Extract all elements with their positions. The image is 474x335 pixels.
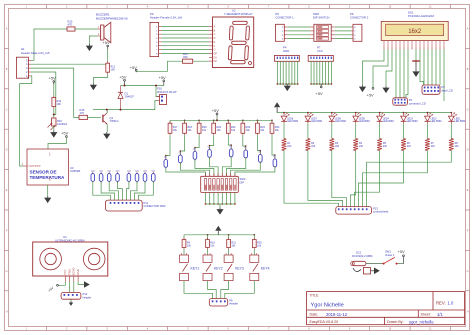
svg-text:P11: P11 (144, 201, 149, 205)
wire SW2 to conector2 (335, 26, 351, 28)
switch KEY2 (203, 253, 223, 281)
svg-text:7: 7 (354, 31, 356, 33)
wire Q3 to SW3 pin 2 (180, 163, 209, 177)
svg-text:PC1602A-GHW-ESX: PC1602A-GHW-ESX (408, 14, 434, 18)
wire +5V to R12 (107, 49, 109, 63)
node vcc bus (316, 83, 318, 85)
svg-text:G: G (214, 49, 216, 52)
wire bus to R19 (198, 120, 200, 123)
node LED8 anode (283, 112, 285, 114)
svg-text:Drawn By:: Drawn By: (387, 320, 404, 324)
svg-text:5: 5 (187, 6, 189, 9)
svg-text:220: 220 (359, 145, 364, 148)
wire LED7 to R2 (307, 124, 309, 139)
wire header pin1 to sensor output (20, 76, 32, 166)
wire Q6 to SW3 pin 5 (222, 157, 231, 177)
wire +5V bus SW3 row (170, 119, 272, 121)
wire ultrasonic ECHO (73, 282, 75, 293)
transistor Q16 (143, 170, 148, 183)
svg-text:Q3: Q3 (178, 152, 182, 154)
wire P4 pin to ground bus (288, 61, 290, 84)
wire ultrasonic GND (78, 282, 84, 285)
svg-text:ygor_nichelle: ygor_nichelle (409, 319, 434, 324)
LED LED5 (353, 113, 370, 124)
wire Q15 to conector SW3 (130, 181, 137, 200)
svg-text:11: 11 (429, 6, 432, 9)
+5V above R14 (49, 76, 57, 85)
wire SW3 ground bus (206, 203, 235, 205)
svg-text:KEY3: KEY3 (235, 267, 244, 271)
wire rail to P10 pin1 (156, 86, 160, 97)
svg-text:B: B (467, 68, 469, 71)
ground LCD VSS (359, 85, 366, 92)
resistor R20 (212, 121, 222, 135)
node Q6 top (230, 144, 232, 146)
svg-text:D2: D2 (214, 60, 218, 63)
svg-text:P2: P2 (442, 85, 446, 89)
node Q3 top (180, 150, 182, 152)
resistor R22 (241, 121, 251, 135)
node Q7 top (245, 145, 247, 147)
svg-text:U4: U4 (63, 235, 67, 239)
svg-text:220: 220 (455, 145, 460, 148)
ground at buzzer (86, 44, 93, 51)
svg-text:G: G (467, 270, 469, 273)
svg-text:conectorleds: conectorleds (373, 210, 389, 214)
wire ground bus (277, 83, 297, 85)
wire R19 to Q4 (195, 135, 199, 151)
svg-text:5: 5 (26, 58, 28, 62)
ultrasonic sensor U4 ULTRASONIC-HC-SR04 (33, 235, 108, 282)
wire R1 to conector leds pin1 (284, 151, 339, 207)
svg-text:F: F (6, 230, 8, 233)
node R20 top (213, 119, 215, 121)
wire LCD E to P3 (403, 50, 405, 98)
svg-text:GND: GND (283, 49, 289, 53)
svg-text:5: 5 (354, 39, 356, 41)
wire R12 bottom to ground (93, 74, 107, 83)
svg-text:VCC: VCC (63, 269, 67, 275)
resistor R16 (79, 108, 88, 120)
transistor Q4 (193, 148, 197, 161)
wire conector1 to SW2 (287, 30, 310, 32)
svg-text:10k: 10k (187, 129, 192, 132)
svg-text:WJ103-5.00-2P: WJ103-5.00-2P (157, 90, 177, 94)
wire conector1 to SW2 (287, 26, 310, 28)
svg-text:Q17: Q17 (151, 170, 156, 172)
svg-text:10k: 10k (257, 244, 262, 247)
wire KEY4 to P8 (225, 281, 255, 299)
svg-text:470: 470 (80, 111, 85, 115)
wire LCD VO to ground (386, 50, 392, 87)
transistor Q15 (135, 170, 140, 183)
switch KEY1 (180, 253, 200, 281)
svg-text:1N4007: 1N4007 (125, 95, 135, 99)
wire ultrasonic TRIG (69, 282, 71, 293)
transistor Q10 (91, 170, 96, 183)
svg-text:DC1: DC1 (356, 250, 362, 254)
svg-text:DIP: DIP (240, 180, 245, 184)
svg-text:7: 7 (156, 50, 158, 52)
svg-text:SENSOR DE: SENSOR DE (30, 170, 57, 175)
node gnd bus (285, 83, 287, 85)
svg-text:data LCD: data LCD (442, 89, 453, 93)
transistor Q17 (151, 170, 156, 183)
LCD display DS1 PC1602A-GHW-ESX (381, 11, 448, 50)
wire R21 to Q6 (228, 135, 231, 149)
resistor R10 (206, 238, 216, 250)
svg-text:E: E (6, 189, 8, 192)
resistor R8 (449, 139, 459, 151)
wire P7 pin to +5V bus (322, 61, 324, 84)
resistor R24 (270, 121, 280, 135)
ground below Q1 (103, 132, 110, 139)
wire Q14 to conector SW3 (126, 181, 128, 200)
node D1 anode (120, 109, 122, 111)
wire Q9 to SW3 pin 8 (235, 167, 275, 177)
node gnd bus (279, 83, 281, 85)
wire R2 to conector leds pin2 (308, 151, 343, 207)
svg-text:16x2: 16x2 (408, 29, 422, 35)
+5V at SW1 (398, 249, 406, 264)
svg-text:C: C (467, 108, 469, 111)
svg-text:+5V: +5V (367, 93, 375, 98)
node SW3 gnd bus (230, 203, 232, 205)
+5V below P7 (316, 84, 324, 96)
svg-text:6: 6 (228, 328, 230, 331)
node Q4 top (194, 147, 196, 149)
wire keys bus (184, 234, 254, 236)
wire P7 pin to +5V bus (330, 61, 332, 84)
svg-text:DCJ0202-2.0MM: DCJ0202-2.0MM (352, 254, 373, 258)
transistor Q1 TIP31C (103, 113, 119, 124)
svg-text:3: 3 (282, 35, 284, 37)
svg-text:SW1: SW1 (385, 250, 391, 254)
wire R20 to Q5 (210, 135, 214, 149)
ground below R12 (90, 83, 97, 90)
svg-text:10k: 10k (231, 244, 236, 247)
svg-text:comando LCD: comando LCD (409, 102, 426, 106)
svg-text:4: 4 (147, 328, 149, 331)
svg-text:+5V: +5V (119, 74, 127, 79)
DC jack DC1 DCJ0202-2.0MM (351, 250, 373, 274)
svg-text:7: 7 (268, 328, 270, 331)
svg-text:Q16: Q16 (143, 170, 148, 172)
node R19 top (198, 119, 200, 121)
svg-text:9: 9 (349, 328, 351, 331)
svg-text:2018-11-12: 2018-11-12 (326, 312, 348, 317)
svg-text:LED-5MM: LED-5MM (431, 120, 442, 123)
resistor R3 (329, 139, 339, 151)
node vcc bus (331, 83, 333, 85)
svg-text:10K: 10K (111, 69, 116, 72)
wire Q16 to conector SW3 (134, 181, 145, 200)
wire R15 to ground (53, 126, 55, 131)
node Q9 top (274, 154, 276, 156)
svg-text:Q6: Q6 (229, 146, 233, 148)
svg-text:Q2: Q2 (164, 156, 168, 158)
svg-text:ULTRASONIC-HC-SR04: ULTRASONIC-HC-SR04 (55, 238, 85, 242)
svg-text:LED-5MM: LED-5MM (455, 120, 466, 123)
svg-text:10k: 10k (231, 129, 236, 132)
node gnd bus (282, 83, 284, 85)
svg-text:220: 220 (407, 145, 412, 148)
svg-text:3: 3 (106, 6, 108, 9)
transistor Q14 (127, 170, 132, 183)
wire P4 pin to ground bus (294, 61, 296, 84)
header H1 Header-Male-2.54_1x5 (16, 47, 50, 78)
node SW3 gnd bus (217, 203, 219, 205)
wire bus to R18 (184, 120, 186, 123)
node LED7 anode (307, 112, 309, 114)
+5V above SW3 row (212, 108, 220, 117)
header P8 (209, 298, 238, 306)
wire SW2 to conector2 (335, 30, 351, 32)
wire R17 to Q2 (166, 135, 170, 159)
wire R13 to buzzer pin 1 (75, 28, 97, 30)
ground below R15 (50, 131, 57, 138)
svg-text:D1: D1 (214, 56, 218, 59)
svg-text:220: 220 (431, 145, 436, 148)
connector P2 data LCD (422, 85, 453, 94)
wire P4 pin to ground bus (297, 61, 299, 84)
LED LED4 (377, 113, 394, 124)
node SW3 gnd bus (209, 203, 211, 205)
ground below ultrasonic header (69, 302, 73, 306)
diode D1 1N4007 (118, 86, 135, 110)
svg-text:4: 4 (282, 39, 284, 41)
ground at DC jack (371, 268, 380, 275)
svg-text:LED-5MM: LED-5MM (359, 120, 370, 123)
node LED6 anode (331, 112, 333, 114)
svg-text:A103GZ: A103GZ (57, 122, 67, 126)
wire bus to R21 (227, 120, 229, 123)
wire header pin4 to R12 node (31, 63, 106, 65)
wire Q17 to conector SW3 (138, 181, 153, 200)
ground at ultrasonic (84, 281, 90, 288)
svg-text:Header-Male-2.54_1x5: Header-Male-2.54_1x5 (21, 51, 50, 55)
svg-text:220: 220 (383, 145, 388, 148)
transistor Q2 (164, 156, 168, 169)
svg-text:G: G (6, 270, 8, 273)
+5V at display resistor (130, 65, 138, 72)
switch KEY3 (224, 253, 244, 281)
wire R23 to Q8 (257, 135, 260, 154)
buzzer BUZZER1 (96, 13, 128, 43)
svg-text:ECHO: ECHO (72, 268, 76, 276)
wire P9 pin2 to display (162, 29, 209, 31)
wire P7 pin to +5V bus (316, 61, 318, 84)
wire LED5 to R4 (355, 124, 357, 139)
header P11 CONECTOR SW3 (106, 200, 166, 211)
+5V below LCD (367, 88, 375, 98)
wire LCD D0 to P3 (406, 50, 408, 98)
photoresistor R15 (48, 118, 68, 130)
node keys bus (253, 234, 255, 236)
resistor R11 (183, 52, 193, 63)
svg-text:220: 220 (287, 145, 292, 148)
wire bus to R22 (242, 120, 244, 123)
svg-text:Date:: Date: (310, 313, 319, 317)
svg-text:Ygor Nichelle: Ygor Nichelle (311, 303, 344, 309)
svg-text:10: 10 (389, 6, 392, 9)
LED LED7 (305, 113, 322, 124)
node Q8 top (260, 150, 262, 152)
resistor R5 (377, 139, 387, 151)
connector P6 CONECTOR 2 (350, 12, 369, 42)
wire Q5 to SW3 pin 4 (210, 157, 219, 176)
svg-text:2: 2 (26, 70, 28, 74)
svg-text:Q4: Q4 (193, 148, 197, 150)
svg-text:E: E (467, 189, 469, 192)
wire R25 to KEY4 (253, 250, 255, 256)
transistor Q6 (229, 146, 233, 159)
svg-text:D: D (6, 149, 8, 152)
header P7 VCC (308, 46, 333, 62)
wire LED anode bus (277, 112, 451, 114)
svg-text:REV:: REV: (436, 300, 446, 305)
ground below P4 (284, 84, 291, 91)
LED LED8 (281, 113, 298, 124)
node keys bus (207, 234, 209, 236)
svg-text:Header: Header (229, 302, 238, 306)
wire P7 pin to +5V bus (325, 61, 327, 84)
svg-text:1: 1 (26, 6, 28, 9)
svg-text:10k: 10k (217, 129, 222, 132)
power flag LED row (274, 102, 280, 112)
wire LED4 to R5 (379, 124, 381, 139)
wire bus to R11 (228, 235, 230, 240)
svg-text:TEMPERATURA: TEMPERATURA (30, 175, 66, 180)
resistor R11 (227, 238, 237, 250)
switch SW1 chave 1 (383, 250, 398, 265)
svg-text:P13: P13 (373, 206, 378, 210)
wire LED1 to R8 (450, 124, 452, 139)
svg-text:+5V: +5V (49, 76, 57, 81)
wire LED3 to R6 (403, 124, 405, 139)
wire +5V to sensor Vs (48, 137, 66, 149)
svg-text:LED-5MM: LED-5MM (287, 120, 298, 123)
node gnd bus (277, 83, 279, 85)
svg-text:220: 220 (335, 145, 340, 148)
svg-text:Q9: Q9 (273, 156, 277, 158)
wire Q2 to SW3 pin 1 (166, 167, 206, 176)
svg-text:+5V: +5V (159, 75, 167, 80)
svg-text:+5V: +5V (398, 249, 406, 254)
node SW3 gnd bus (213, 203, 215, 205)
node Q2 top (165, 155, 167, 157)
svg-text:Header: Header (83, 296, 92, 300)
connector P10 WJ103-5.00-2P (157, 87, 177, 105)
header P9 Header-Female-2.54_1x8 (150, 12, 182, 57)
wire P4 pin to ground bus (276, 61, 278, 84)
resistor R13 (67, 20, 75, 32)
node +5V bus (216, 119, 218, 121)
svg-text:470: 470 (68, 23, 73, 27)
node header pin1 (28, 77, 30, 79)
svg-text:2: 2 (66, 6, 68, 9)
node SW3 gnd bus (234, 203, 236, 205)
svg-text:+5V: +5V (61, 131, 69, 136)
wire +5V to R14 (53, 85, 55, 98)
wire P4 pin to ground bus (291, 61, 293, 84)
wire Q11 to conector SW3 (101, 181, 114, 200)
svg-text:7-SEGMENT-DISPLAY: 7-SEGMENT-DISPLAY (224, 12, 253, 16)
node LED1 anode (450, 112, 452, 114)
wire ultrasonic VCC (58, 282, 65, 286)
+5V above R12 (102, 40, 110, 49)
svg-text:+5V: +5V (47, 285, 55, 292)
wire KEY2 to P8 (208, 281, 217, 299)
wire SW1 to +5V (398, 263, 404, 265)
svg-text:10k: 10k (187, 244, 192, 247)
wire Q8 to SW3 pin 7 (231, 162, 261, 176)
svg-text:Q10: Q10 (91, 170, 96, 172)
transistor Q9 (273, 156, 277, 169)
wire bus to R24 (271, 120, 273, 123)
transistor Q8 (258, 151, 262, 164)
node SW3 gnd bus (226, 203, 228, 205)
resistor R7 (425, 139, 435, 151)
+5V at P10 (159, 75, 167, 86)
wire P7 pin to +5V bus (319, 61, 321, 84)
+5V at ultrasonic (47, 284, 58, 292)
node Q5 top (209, 145, 211, 147)
node gnd bus (297, 83, 299, 85)
svg-text:+5V: +5V (102, 40, 110, 45)
node vcc bus (325, 83, 327, 85)
wire R10 to KEY2 (207, 250, 209, 256)
svg-text:220: 220 (311, 145, 316, 148)
svg-text:CONECTOR SW3: CONECTOR SW3 (144, 204, 166, 208)
LED LED6 (329, 113, 346, 124)
node R22 top (242, 119, 244, 121)
node LED2 anode (427, 112, 429, 114)
wire LCD K pin (443, 50, 445, 102)
wire LCD VSS to ground (363, 50, 385, 86)
svg-text:LED-5MM: LED-5MM (383, 120, 394, 123)
svg-text:D: D (214, 37, 216, 40)
wire P9 pin7 to display (162, 49, 209, 51)
wire KEY3 to P8 (221, 281, 229, 299)
svg-text:TITLE:: TITLE: (310, 294, 320, 298)
node LED3 anode (403, 112, 405, 114)
wire SW3 bus to ground (219, 204, 221, 208)
svg-text:E: E (214, 41, 216, 44)
svg-text:3: 3 (26, 66, 28, 70)
node SW3 gnd bus (205, 203, 207, 205)
resistor R9 (182, 238, 191, 250)
svg-text:Q15: Q15 (135, 170, 140, 172)
7-segment display U2 (209, 8, 254, 67)
svg-text:DIP SWITCH: DIP SWITCH (313, 15, 329, 19)
svg-text:3: 3 (106, 328, 108, 331)
DIP switch SW2 (310, 12, 335, 42)
node vcc bus (310, 83, 312, 85)
wire LCD data pin jog (420, 50, 424, 86)
node keys bus (228, 234, 230, 236)
resistor R6 (401, 139, 411, 151)
resistor R4 (353, 139, 363, 151)
wire conector1 to SW2 (287, 38, 310, 40)
svg-text:4: 4 (147, 6, 149, 9)
wire P9 pin5 to display (162, 41, 209, 43)
+5V at D1 (119, 74, 127, 85)
wire P9 pin3 to display (162, 33, 209, 35)
svg-text:1: 1 (156, 27, 158, 29)
svg-text:OUTPUT: OUTPUT (29, 164, 42, 168)
wire Q1 collector (106, 110, 108, 113)
